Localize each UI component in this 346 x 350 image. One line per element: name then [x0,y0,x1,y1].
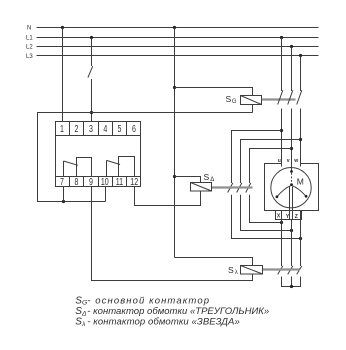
junction on N to terminal 1 [61,26,64,29]
wire rail N [37,27,319,29]
svg-text:- основной контактор: - основной контактор [87,295,210,306]
wire L1 to SG contact 1 [281,38,283,92]
junction L2 to SG pole2 [290,45,293,48]
svg-text:N: N [27,25,31,31]
svg-text:w: w [293,158,298,164]
label S-star [228,265,238,276]
relay contact K1 pole (terminal 7) [63,161,65,177]
junction S-delta coil feed from N [173,175,176,178]
wire motor lead w [300,109,302,167]
svg-text:M: M [297,176,304,186]
SG contact 2 blade [288,90,293,104]
relay contact K1 blade [64,161,79,165]
wire w to S-delta pole 2 [241,140,301,184]
wire terminal 10 stub [105,187,107,202]
wire motor lead X down [281,211,283,267]
svg-text:X: X [277,214,281,220]
svg-text:λ: λ [81,321,85,328]
wire motor lead v [291,109,293,172]
S-star mechanical link [263,268,300,270]
relay terminal numbers 7-12 [60,176,138,187]
wire S-delta coil return to terminal 12 [135,187,201,206]
svg-text:11: 11 [116,176,124,187]
wire N to relay terminal 1 [62,28,64,122]
junction v branch [290,147,293,150]
wire SG coil out bottom [252,105,254,113]
svg-text:- контактор обмотки «ТРЕУГОЛЬН: - контактор обмотки «ТРЕУГОЛЬНИК» [87,306,269,317]
junction star point [290,285,293,288]
wire rail L3 [37,55,319,57]
svg-text:8: 8 [75,176,79,187]
switch blade [88,66,93,77]
S-star contact 2 blade [288,266,293,275]
wire v to S-delta pole 3 [250,149,292,184]
motor stator circle [271,168,311,208]
svg-text:Δ: Δ [210,177,214,183]
motor winding dashed lead [291,173,293,184]
relay contact K2 pole (terminal 10) [106,160,108,176]
svg-text:L3: L3 [26,54,33,60]
junction w branch [299,138,302,141]
legend line 2 [75,306,269,317]
coil S-delta box [191,183,212,192]
wire SG return loop to relay bottom [38,113,253,202]
SG contact 3 blade [297,90,302,104]
wire S-delta pole3 out to X [250,195,282,223]
svg-text:6: 6 [132,123,136,134]
S-delta contact 2 blade [237,183,242,193]
svg-text:S: S [228,265,234,275]
svg-text:3: 3 [89,123,93,134]
wire motor lead Y down [291,220,293,267]
wire L2 to SG contact 2 [291,47,293,92]
motor winding node centre [290,183,293,186]
SG mechanical link [262,98,296,100]
wire motor lead Z down [300,211,302,267]
svg-text:u: u [278,158,281,164]
svg-text:9: 9 [89,176,93,187]
wire S-star coil return to terminal 9 [92,187,253,281]
wire terminal 7 stub [63,187,65,202]
legend line 1 [75,295,210,306]
junction on N feeding coils [173,26,176,29]
S-star contact 3 blade [297,266,302,275]
svg-text:S: S [226,94,232,104]
S-delta contact 1 blade [228,183,233,193]
SG contact 1 blade [278,90,283,104]
svg-text:5: 5 [118,123,122,134]
relay top terminal row [56,135,141,137]
svg-text:7: 7 [60,176,64,187]
relay contact K2 fixed bracket (terminals 11-12) [119,157,135,177]
label SG [226,94,237,105]
svg-text:12: 12 [130,176,138,187]
junction Z delta [299,237,302,240]
svg-text:4: 4 [103,123,107,134]
wire S-delta pole1 out to Z [232,195,301,239]
coil SG box [241,96,262,105]
svg-text:- контактор обмотки «ЗВЕЗДА»: - контактор обмотки «ЗВЕЗДА» [87,317,240,328]
S-delta contact 3 blade [246,183,251,193]
junction Y delta [290,229,293,232]
wire N feed vertical [174,28,176,258]
wire N junction to SG coil [175,88,253,96]
motor terminal labels x y z [277,214,298,220]
motor terminal labels u v w [278,158,298,164]
svg-text:v: v [287,158,290,164]
legend line 3 [75,317,240,328]
junction L1 to SG pole1 [280,36,283,39]
wire rail L1 [37,37,319,39]
motor winding centre pair down [289,187,291,220]
junction terminal-3 wire with SG return [90,111,93,114]
motor winding node top [290,170,293,173]
junction terminal 7 on return [62,200,65,203]
wire motor lead u [281,109,283,167]
relay bottom terminal row [56,176,141,178]
junction L3 to SG pole3 [299,54,302,57]
label S-delta [204,172,215,183]
svg-text:S: S [204,172,210,182]
junction u branch [280,129,283,132]
wire N junction to S-delta coil [175,177,201,183]
junction SG coil feed from N [173,86,176,89]
svg-text:Z: Z [295,214,298,220]
relay contact K1 fixed bracket (terminals 8-9) [77,158,92,177]
relay terminal numbers 1-6 [60,123,136,134]
wire L3 to SG contact 3 [300,56,302,92]
motor winding left arc [277,186,291,197]
wire rail L2 [37,46,319,48]
relay U1 outer box [56,122,141,187]
svg-text:2: 2 [75,123,79,134]
motor winding right arc [293,186,307,196]
S-star contact 1 blade [278,266,283,275]
coil S-star box [241,266,263,275]
svg-text:G: G [232,99,237,105]
wire switch to relay terminal 3 [91,79,93,122]
svg-text:10: 10 [101,176,109,187]
svg-text:1: 1 [60,123,64,134]
wire star point bar [282,277,301,287]
wire terminal 12 stub [134,187,136,206]
wire u to S-delta pole 1 [232,131,282,184]
relay contact K2 blade [107,160,121,164]
junction X delta [280,221,283,224]
motor housing outline [265,164,319,211]
svg-text:λ: λ [235,270,238,276]
wire L1 to switch [91,38,93,67]
wire N feed to S-star coil [175,258,253,266]
wire S-delta pole2 out to Y [241,195,292,231]
S-delta mechanical link [212,186,253,188]
svg-text:L2: L2 [26,45,33,51]
junction on L1 to switch [90,36,93,39]
svg-text:L1: L1 [26,36,33,42]
